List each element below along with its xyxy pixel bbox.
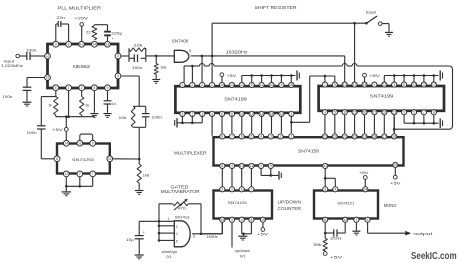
svg-text:12: 12 xyxy=(250,112,254,116)
svg-text:2: 2 xyxy=(280,135,282,139)
svg-text:100n: 100n xyxy=(152,115,163,120)
svg-text:+5V: +5V xyxy=(369,73,380,78)
svg-text:6: 6 xyxy=(403,83,405,87)
svg-text:8: 8 xyxy=(433,110,435,114)
svg-text:10: 10 xyxy=(261,218,265,222)
svg-text:3: 3 xyxy=(270,135,272,139)
svg-text:9: 9 xyxy=(92,142,94,146)
svg-text:SeekIC.com: SeekIC.com xyxy=(411,251,457,262)
svg-text:10k: 10k xyxy=(134,43,143,48)
svg-text:6: 6 xyxy=(221,112,223,116)
svg-text:1: 1 xyxy=(324,83,326,87)
svg-text:9: 9 xyxy=(270,164,272,168)
svg-text:9: 9 xyxy=(231,218,233,222)
svg-text:20: 20 xyxy=(353,135,357,139)
svg-text:SN74150: SN74150 xyxy=(298,148,320,153)
svg-text:3: 3 xyxy=(201,112,203,116)
svg-text:4: 4 xyxy=(211,112,213,116)
svg-text:2: 2 xyxy=(81,86,83,90)
svg-text:1: 1 xyxy=(68,86,70,90)
svg-text:8: 8 xyxy=(344,110,346,114)
svg-text:22n: 22n xyxy=(56,15,65,20)
svg-text:MONO: MONO xyxy=(384,203,397,208)
svg-text:6: 6 xyxy=(367,218,369,222)
svg-text:SN74199: SN74199 xyxy=(224,97,247,102)
svg-text:10: 10 xyxy=(270,83,274,87)
svg-text:14: 14 xyxy=(64,142,68,146)
svg-text:8: 8 xyxy=(56,157,58,161)
svg-text:11: 11 xyxy=(260,83,264,87)
svg-text:16: 16 xyxy=(363,110,367,114)
svg-text:18: 18 xyxy=(373,135,377,139)
svg-text:1: 1 xyxy=(290,135,292,139)
svg-text:+5V: +5V xyxy=(390,181,401,186)
svg-text:MULTIVIBRATOR: MULTIVIBRATOR xyxy=(161,189,200,194)
svg-text:11: 11 xyxy=(353,83,357,87)
svg-text:8: 8 xyxy=(221,135,223,139)
svg-text:5: 5 xyxy=(413,110,415,114)
svg-text:6: 6 xyxy=(55,86,57,90)
svg-text:9: 9 xyxy=(280,83,282,87)
svg-text:23: 23 xyxy=(323,135,327,139)
svg-text:11: 11 xyxy=(250,164,254,168)
svg-text:39k: 39k xyxy=(313,242,322,247)
svg-text:NE562: NE562 xyxy=(73,64,91,69)
svg-text:4: 4 xyxy=(334,188,336,192)
svg-text:12: 12 xyxy=(64,172,68,176)
svg-text:12: 12 xyxy=(46,54,50,58)
svg-text:100n: 100n xyxy=(2,94,12,99)
svg-text:SN7400: SN7400 xyxy=(172,39,189,44)
svg-text:+5V: +5V xyxy=(359,170,369,175)
svg-text:1,020MHz: 1,020MHz xyxy=(1,63,23,68)
svg-text:2: 2 xyxy=(260,164,262,168)
svg-text:4: 4 xyxy=(324,110,326,114)
svg-text:1k8: 1k8 xyxy=(143,172,149,177)
svg-text:17: 17 xyxy=(373,110,377,114)
svg-text:1k8: 1k8 xyxy=(160,65,166,70)
svg-text:10μ: 10μ xyxy=(126,237,134,242)
svg-text:22: 22 xyxy=(86,29,91,34)
svg-text:0/1: 0/1 xyxy=(240,254,246,259)
svg-text:12: 12 xyxy=(323,164,327,168)
svg-text:7: 7 xyxy=(231,135,233,139)
svg-text:SN7413: SN7413 xyxy=(175,215,190,220)
svg-text:16320Hz: 16320Hz xyxy=(226,50,248,55)
svg-text:up/down: up/down xyxy=(235,248,251,253)
svg-text:7: 7 xyxy=(191,112,193,116)
svg-text:470: 470 xyxy=(178,206,187,211)
svg-text:7: 7 xyxy=(423,110,425,114)
svg-text:13: 13 xyxy=(240,83,244,87)
svg-text:2: 2 xyxy=(211,83,213,87)
svg-text:14: 14 xyxy=(363,188,367,192)
svg-text:12: 12 xyxy=(343,218,347,222)
svg-text:8: 8 xyxy=(231,112,233,116)
svg-text:4: 4 xyxy=(231,164,233,168)
svg-text:19: 19 xyxy=(363,135,367,139)
svg-text:5: 5 xyxy=(176,239,178,243)
svg-text:9: 9 xyxy=(55,43,57,47)
svg-text:8: 8 xyxy=(93,86,95,90)
svg-text:14: 14 xyxy=(230,83,234,87)
svg-text:+20V: +20V xyxy=(74,16,88,21)
svg-text:+: + xyxy=(169,54,171,58)
svg-text:8: 8 xyxy=(189,49,191,53)
svg-text:17: 17 xyxy=(432,83,436,87)
svg-text:6: 6 xyxy=(241,188,243,192)
svg-text:15: 15 xyxy=(270,112,274,116)
svg-text:160Hz: 160Hz xyxy=(206,234,218,239)
svg-text:7: 7 xyxy=(92,172,94,176)
svg-text:COUNTER: COUNTER xyxy=(278,206,302,211)
svg-text:5: 5 xyxy=(251,83,253,87)
svg-text:100n: 100n xyxy=(26,48,37,53)
svg-text:7: 7 xyxy=(355,218,357,222)
svg-text:17: 17 xyxy=(382,135,386,139)
svg-text:3: 3 xyxy=(403,110,405,114)
svg-text:SN74121: SN74121 xyxy=(337,200,354,205)
svg-text:21: 21 xyxy=(280,112,284,116)
svg-text:15: 15 xyxy=(353,110,357,114)
svg-text:6: 6 xyxy=(193,234,195,238)
svg-text:220μ: 220μ xyxy=(111,30,123,35)
svg-text:2: 2 xyxy=(79,172,81,176)
svg-text:21: 21 xyxy=(392,110,396,114)
svg-text:MULTIPLEXER: MULTIPLEXER xyxy=(174,150,207,155)
svg-text:21: 21 xyxy=(343,135,347,139)
svg-text:SN74293: SN74293 xyxy=(72,157,95,162)
svg-text:8: 8 xyxy=(68,43,70,47)
svg-text:8: 8 xyxy=(250,218,252,222)
svg-text:8: 8 xyxy=(221,164,223,168)
svg-text:1k: 1k xyxy=(48,103,52,108)
svg-text:100n: 100n xyxy=(132,65,143,70)
svg-text:0/1: 0/1 xyxy=(166,254,172,259)
svg-text:3: 3 xyxy=(324,188,326,192)
svg-text:2: 2 xyxy=(191,83,193,87)
svg-text:5: 5 xyxy=(221,188,223,192)
svg-text:9: 9 xyxy=(334,83,336,87)
svg-text:SHIFT REGISTER: SHIFT REGISTER xyxy=(255,5,297,10)
svg-text:11: 11 xyxy=(78,142,82,146)
svg-text:2: 2 xyxy=(176,225,178,229)
svg-text:10: 10 xyxy=(240,112,244,116)
svg-text:10: 10 xyxy=(240,164,244,168)
svg-text:15: 15 xyxy=(363,83,367,87)
svg-text:1: 1 xyxy=(168,217,170,221)
svg-text:11: 11 xyxy=(323,218,327,222)
svg-text:14: 14 xyxy=(260,112,264,116)
svg-text:10k: 10k xyxy=(119,115,127,120)
svg-text:9: 9 xyxy=(107,86,109,90)
svg-text:24: 24 xyxy=(393,163,397,167)
svg-text:20n: 20n xyxy=(330,236,341,241)
svg-text:UP/DOWN: UP/DOWN xyxy=(278,199,302,204)
svg-text:22: 22 xyxy=(382,83,386,87)
svg-text:2: 2 xyxy=(290,112,292,116)
svg-text:+5V: +5V xyxy=(257,232,268,237)
svg-text:15: 15 xyxy=(46,76,50,80)
svg-text:100n: 100n xyxy=(27,130,37,135)
svg-text:+5V: +5V xyxy=(227,73,237,78)
svg-text:14: 14 xyxy=(93,43,97,47)
svg-text:4: 4 xyxy=(176,232,178,236)
svg-text:4: 4 xyxy=(241,218,243,222)
svg-text:5: 5 xyxy=(334,110,336,114)
svg-text:10: 10 xyxy=(80,43,84,47)
svg-text:6: 6 xyxy=(241,135,243,139)
svg-text:22: 22 xyxy=(333,135,337,139)
svg-text:output: output xyxy=(413,231,434,236)
svg-text:4: 4 xyxy=(117,74,119,78)
svg-text:load: load xyxy=(366,10,376,15)
svg-text:7: 7 xyxy=(250,188,252,192)
svg-text:SN74191: SN74191 xyxy=(228,200,248,205)
svg-text:14: 14 xyxy=(220,218,224,222)
svg-text:16: 16 xyxy=(220,83,224,87)
svg-text:4: 4 xyxy=(260,135,262,139)
svg-text:18: 18 xyxy=(289,83,293,87)
svg-text:1: 1 xyxy=(181,83,183,87)
svg-text:2: 2 xyxy=(231,188,233,192)
svg-text:+5V: +5V xyxy=(330,254,343,259)
svg-text:16: 16 xyxy=(392,135,396,139)
svg-text:10: 10 xyxy=(343,83,347,87)
svg-text:20: 20 xyxy=(382,110,386,114)
svg-text:3: 3 xyxy=(393,83,395,87)
svg-text:5: 5 xyxy=(250,135,252,139)
svg-text:13: 13 xyxy=(412,83,416,87)
svg-text:SN74199: SN74199 xyxy=(370,94,394,99)
svg-text:10: 10 xyxy=(108,157,112,161)
svg-text:+5V: +5V xyxy=(52,127,63,132)
svg-text:9: 9 xyxy=(181,112,183,116)
svg-text:12: 12 xyxy=(422,83,426,87)
svg-text:3: 3 xyxy=(117,54,119,58)
svg-text:1k: 1k xyxy=(85,103,89,108)
svg-text:1n: 1n xyxy=(112,101,116,106)
svg-text:PLL MULTIPLIER: PLL MULTIPLIER xyxy=(58,6,102,11)
svg-text:3: 3 xyxy=(201,83,203,87)
svg-text:13: 13 xyxy=(106,43,110,47)
svg-text:2: 2 xyxy=(373,83,375,87)
